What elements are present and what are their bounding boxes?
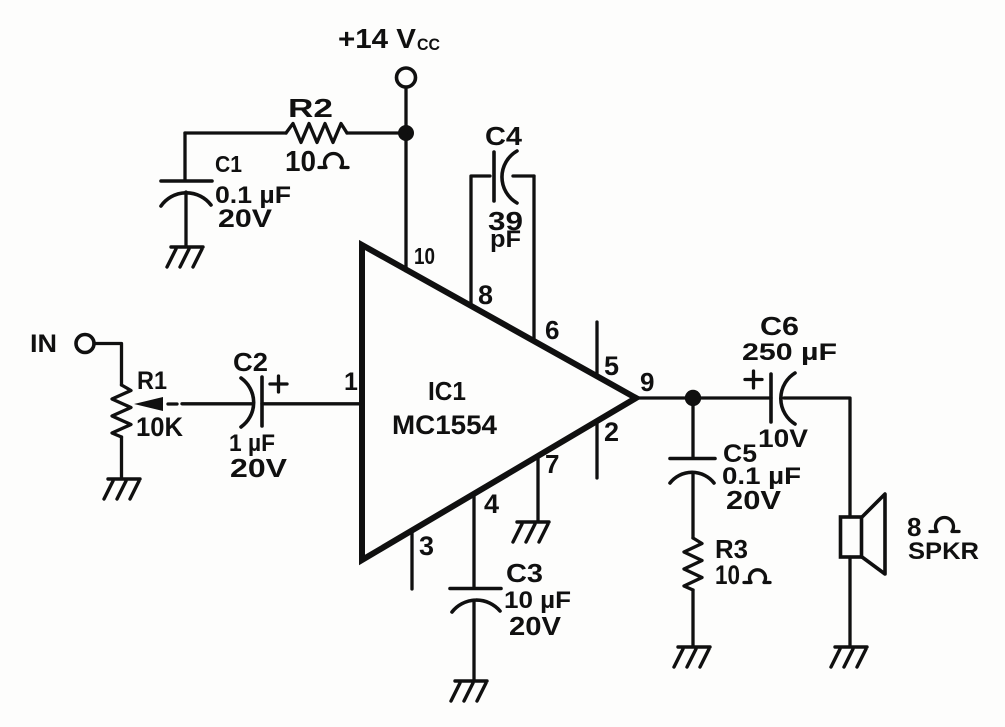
svg-text:C6: C6	[760, 311, 799, 341]
svg-text:2: 2	[604, 417, 619, 447]
svg-text:C2: C2	[233, 347, 268, 377]
capacitor C6	[742, 311, 837, 453]
pin 7 wire to ground	[538, 449, 559, 521]
svg-text:10: 10	[414, 243, 435, 269]
svg-text:9: 9	[640, 367, 654, 397]
wire R2 to Vcc node	[347, 131, 406, 134]
terminal IN	[76, 335, 94, 353]
ground R3	[674, 647, 710, 667]
pin 5 stub	[597, 322, 619, 381]
wire Vcc terminal to node	[404, 88, 407, 133]
pin 10 label	[414, 243, 435, 269]
wire C1 to R2	[185, 131, 286, 134]
svg-text:R1: R1	[137, 367, 167, 395]
junction output node	[685, 390, 701, 406]
label R2 value 10 ohm	[285, 146, 348, 178]
pin 2 stub	[597, 417, 619, 478]
svg-text:20V: 20V	[218, 205, 272, 233]
wire Vcc node to pin 10	[404, 141, 407, 271]
node +14 Vcc label	[338, 23, 440, 54]
svg-text:IC1: IC1	[428, 376, 466, 406]
svg-text:7: 7	[545, 449, 559, 479]
svg-text:6: 6	[545, 315, 559, 345]
pin 8 label	[478, 280, 493, 310]
svg-text:1: 1	[344, 368, 358, 396]
svg-text:MC1554: MC1554	[392, 410, 497, 440]
svg-text:SPKR: SPKR	[908, 538, 979, 565]
node IN label	[30, 330, 57, 358]
svg-text:10K: 10K	[136, 412, 183, 442]
svg-text:+14 V: +14 V	[338, 23, 416, 54]
ground C1	[167, 247, 203, 267]
ground R1	[104, 479, 140, 499]
svg-text:pF: pF	[490, 226, 521, 253]
ground speaker	[831, 647, 867, 667]
svg-text:C3: C3	[506, 558, 543, 588]
svg-text:250 µF: 250 µF	[742, 339, 837, 366]
junction Vcc node	[398, 125, 414, 141]
pin 1 label	[344, 368, 358, 396]
wire IN to R1	[94, 344, 122, 386]
pin 6 label	[545, 315, 559, 345]
svg-text:C1: C1	[215, 151, 242, 177]
svg-text:10: 10	[715, 560, 740, 590]
wire R1 wiper to C2	[182, 402, 252, 405]
ground pin 7	[513, 522, 549, 542]
wire pin 9 to output node	[636, 367, 685, 398]
svg-text:10: 10	[285, 146, 316, 178]
svg-text:3: 3	[419, 531, 434, 561]
terminal Vcc	[397, 68, 416, 87]
pin 3 stub	[412, 531, 434, 589]
svg-text:IN: IN	[30, 330, 57, 358]
wire node to C6	[701, 396, 771, 399]
svg-text:10 µF: 10 µF	[504, 587, 571, 614]
capacitor C5	[670, 406, 801, 538]
svg-text:8: 8	[478, 280, 493, 310]
svg-text:10V: 10V	[758, 425, 808, 453]
svg-text:5: 5	[604, 351, 619, 381]
potentiometer R1	[112, 367, 183, 478]
svg-text:R2: R2	[288, 93, 333, 123]
resistor R2	[286, 93, 347, 143]
svg-text:4: 4	[484, 489, 499, 519]
capacitor C4	[471, 121, 534, 341]
wire C2 to pin 1	[262, 402, 360, 405]
wire C6 to speaker	[784, 398, 850, 517]
op-amp IC1 MC1554	[362, 245, 636, 560]
svg-text:20V: 20V	[726, 485, 782, 515]
resistor R3	[684, 534, 770, 646]
capacitor C1	[161, 133, 291, 246]
svg-text:C4: C4	[485, 121, 523, 151]
svg-text:CC: CC	[417, 35, 440, 54]
capacitor C2	[229, 347, 288, 483]
pin 4 wire	[474, 489, 499, 587]
svg-text:20V: 20V	[509, 611, 562, 641]
speaker SPKR	[841, 494, 980, 645]
capacitor C3	[450, 558, 571, 680]
ground C3	[451, 681, 487, 701]
svg-text:20V: 20V	[230, 453, 288, 483]
